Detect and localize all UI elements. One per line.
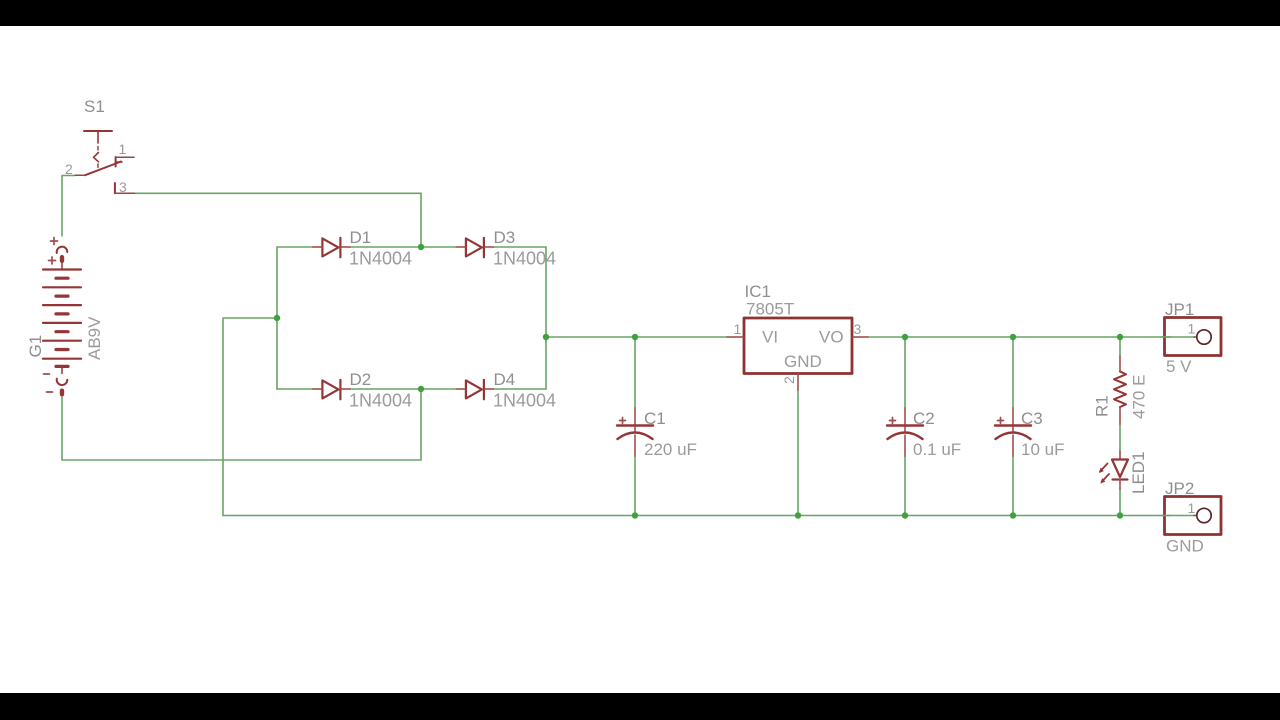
diode D2 <box>313 380 350 399</box>
resistor R1 <box>1114 356 1126 424</box>
wire: C2 bottom branch <box>904 456 906 516</box>
wire: bridge row1 right segment <box>494 246 547 248</box>
svg-text:220 uF: 220 uF <box>644 440 697 459</box>
svg-text:1: 1 <box>119 141 127 157</box>
svg-text:C2: C2 <box>913 409 935 428</box>
wire: C1 top branch <box>634 337 636 408</box>
svg-text:R1: R1 <box>1093 395 1112 417</box>
wire: C1 bottom branch <box>634 456 636 516</box>
switch S1 pin 1 <box>116 156 134 158</box>
LED LED1 <box>1112 451 1128 489</box>
wire: main rail IC1 pin 3 to JP1 <box>868 336 1195 338</box>
wire overlay crossing JP1 border <box>1161 336 1171 338</box>
junction R1 top <box>1117 334 1123 340</box>
svg-text:GND: GND <box>784 352 822 371</box>
svg-text:5 V: 5 V <box>1166 357 1192 376</box>
svg-text:IC1: IC1 <box>745 282 771 301</box>
svg-text:AB9V: AB9V <box>85 316 104 360</box>
battery G1 <box>43 247 81 397</box>
IC1 pin 2 stub <box>797 374 799 391</box>
svg-text:1: 1 <box>734 321 742 337</box>
junction at bridge right output <box>543 334 549 340</box>
wire: battery plus to switch pin 2 <box>62 176 75 237</box>
svg-text:S1: S1 <box>84 97 105 116</box>
svg-text:C1: C1 <box>644 409 666 428</box>
svg-text:470 E: 470 E <box>1130 375 1149 419</box>
svg-text:VO: VO <box>819 328 844 347</box>
JP1 pin circle <box>1197 330 1211 344</box>
svg-text:1N4004: 1N4004 <box>493 249 556 269</box>
LED1 emission arrows <box>1099 464 1109 484</box>
svg-text:3: 3 <box>119 179 127 195</box>
wire: rail to R1 <box>1119 337 1121 356</box>
wire overlay crossing JP2 border <box>1161 515 1171 517</box>
plus mark of C2 <box>890 418 896 424</box>
voltage regulator IC1 7805T <box>727 318 868 390</box>
wire: main rail bridge to IC1 pin 1 <box>546 336 727 338</box>
junction at bridge row1 <box>418 244 424 250</box>
wire: bottom ground rail <box>223 515 1195 517</box>
junction at bridge left <box>274 315 280 321</box>
wire: battery minus to bridge row2 junction <box>62 389 421 460</box>
wire: bridge left vertical <box>276 247 278 389</box>
top letterbox bar <box>0 0 1280 26</box>
svg-text:C3: C3 <box>1021 409 1043 428</box>
connector JP2 <box>1165 497 1222 535</box>
wire: bridge right vertical <box>545 247 547 389</box>
svg-text:10 uF: 10 uF <box>1021 440 1064 459</box>
svg-text:JP2: JP2 <box>1165 479 1194 498</box>
svg-text:LED1: LED1 <box>1129 451 1148 494</box>
connector JP1 <box>1165 318 1222 356</box>
JP2 pin 1 stub <box>1194 515 1197 517</box>
junction LED1 bottom <box>1117 512 1123 518</box>
switch S1 pin 3 <box>115 183 135 193</box>
junction C2 bottom <box>902 512 908 518</box>
JP2 pin circle <box>1197 508 1211 522</box>
wire: C3 top branch <box>1012 337 1014 408</box>
IC1 pin 1 stub <box>727 336 744 338</box>
capacitor C1 <box>617 408 653 456</box>
svg-text:2: 2 <box>65 161 73 177</box>
svg-text:3: 3 <box>854 321 862 337</box>
switch S1 <box>84 131 122 175</box>
svg-text:0.1 uF: 0.1 uF <box>913 440 961 459</box>
junction IC1 gnd bottom <box>795 512 801 518</box>
battery G1 minus marks <box>44 374 53 392</box>
plus mark of C1 <box>620 418 626 424</box>
svg-text:D1: D1 <box>350 228 372 247</box>
bottom letterbox bar <box>0 693 1280 720</box>
wire: IC1 pin 2 to ground rail <box>797 390 799 516</box>
diode D1 <box>313 238 350 257</box>
wire: bridge row2 right segment <box>494 388 547 390</box>
wire: bridge row1 left segment <box>277 246 313 248</box>
wire: switch pin3 to bridge top junction <box>135 193 422 247</box>
wire: bridge row2 middle segment D2-D4 <box>350 388 456 390</box>
capacitor C3 <box>995 408 1031 456</box>
wire: LED1 to ground rail <box>1119 489 1121 516</box>
wire: bridge left junction to bottom rail <box>223 318 277 516</box>
diode D3 <box>456 238 493 257</box>
svg-text:1: 1 <box>1188 321 1196 337</box>
diode D4 <box>456 380 493 399</box>
IC1 pin 3 stub <box>852 336 868 338</box>
svg-text:7805T: 7805T <box>746 300 794 319</box>
svg-text:JP1: JP1 <box>1165 300 1194 319</box>
svg-text:D2: D2 <box>350 370 372 389</box>
svg-text:1N4004: 1N4004 <box>493 391 556 411</box>
svg-text:1: 1 <box>1188 500 1196 516</box>
svg-text:VI: VI <box>762 328 778 347</box>
svg-text:1N4004: 1N4004 <box>349 249 412 269</box>
wire: C3 bottom branch <box>1012 456 1014 516</box>
junction at bridge row2 <box>418 386 424 392</box>
battery G1 plus marks <box>49 238 58 265</box>
switch S1 pin 2 <box>75 174 85 176</box>
svg-text:D4: D4 <box>494 370 516 389</box>
junction C3 top <box>1010 334 1016 340</box>
junction C1 top <box>632 334 638 340</box>
svg-text:D3: D3 <box>494 228 516 247</box>
svg-text:G1: G1 <box>26 335 45 358</box>
svg-text:2: 2 <box>781 376 797 384</box>
wire: bridge row1 middle segment D1-D3 <box>350 246 456 248</box>
junction C3 bottom <box>1010 512 1016 518</box>
wire: R1 to LED1 <box>1119 424 1121 451</box>
plus mark of C3 <box>998 418 1004 424</box>
svg-text:1N4004: 1N4004 <box>349 391 412 411</box>
JP1 pin 1 stub <box>1194 336 1197 338</box>
svg-text:GND: GND <box>1166 537 1204 556</box>
junction C2 top <box>902 334 908 340</box>
junction C1 bottom <box>632 512 638 518</box>
capacitor C2 <box>887 408 923 456</box>
wire: C2 top branch <box>904 337 906 408</box>
wire: bridge row2 left segment <box>277 388 313 390</box>
